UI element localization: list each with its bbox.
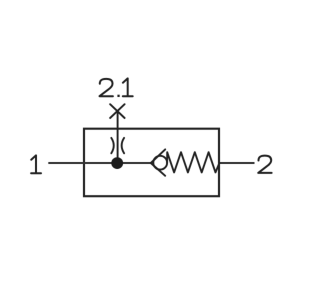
valve body enclosure box [84, 129, 219, 197]
wire: port 2 line (right) [219, 162, 255, 164]
check valve seat V [151, 149, 165, 175]
junction node (filled dot) [111, 157, 123, 169]
port label 2 [258, 156, 271, 173]
wire: port 1 line (left) [48, 162, 84, 164]
check valve ball circle [153, 156, 167, 170]
wire: vertical pilot line from X to junction [117, 111, 119, 163]
wire: internal main line to check valve apex [84, 162, 151, 164]
port label 1 [31, 155, 41, 173]
X plugged test port symbol [110, 104, 125, 118]
spring [167, 152, 219, 172]
label 2.1 [100, 79, 113, 96]
throttle orifice arcs [111, 138, 124, 153]
